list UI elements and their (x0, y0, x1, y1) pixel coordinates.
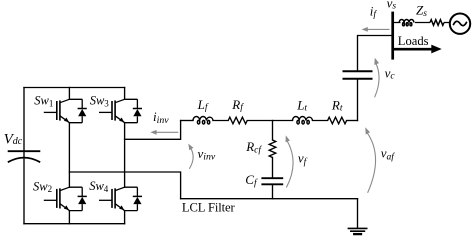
current arrow i_f (gray) (362, 27, 390, 32)
svg-text:LCL Filter: LCL Filter (182, 201, 236, 215)
voltage arc v_c (gray) (374, 58, 379, 98)
leg2 wire bottom (124, 211, 126, 224)
terminal B wire (69, 172, 180, 199)
filter wire segment 1 (181, 120, 193, 122)
grid bus vs (thick vertical) (391, 12, 394, 60)
wire Rf-Lf (213, 120, 228, 122)
Loads arrow (392, 48, 433, 51)
Vdc capacitor plate top (9, 150, 40, 152)
leg2 wire top (124, 88, 126, 100)
leg1 wire mid (68, 123, 70, 188)
svg-text:vs: vs (387, 0, 397, 12)
current arrow i_inv (gray) (150, 130, 178, 135)
wire Rt-corner (347, 120, 358, 122)
svg-text:Loads: Loads (398, 34, 429, 48)
wire Lt-Rt (313, 120, 328, 122)
ground bars (348, 228, 366, 231)
inductor Lt (293, 117, 313, 125)
right rail upper (358, 36, 393, 72)
right rail lower (357, 79, 359, 121)
resistor Zs zigzag (430, 20, 444, 26)
Cf bottom wire (272, 184, 274, 198)
inductor Zs coil (399, 19, 414, 25)
voltage arc v_f (gray) (286, 135, 294, 187)
top rail (24, 87, 125, 89)
inverter switch Sw3 (99, 99, 142, 122)
inverter switch Sw4 (99, 187, 142, 210)
ground stem (357, 199, 359, 229)
inverter switch Sw2 (44, 187, 87, 210)
leg2 wire mid (124, 123, 126, 188)
vc capacitor plates (344, 71, 372, 78)
bottom rail (24, 223, 125, 225)
bottom wire (181, 198, 358, 200)
Cf plates (262, 178, 282, 184)
voltage arc v_af (gray) (365, 127, 375, 193)
leg1 wire top (68, 88, 70, 100)
resistor Rcf vertical (269, 140, 276, 158)
wire bus to Zs (392, 22, 450, 24)
AC source sine (453, 21, 467, 25)
resistor Rf (228, 117, 247, 124)
resistor Rt (328, 117, 347, 124)
Rcf branch upper wire (272, 121, 274, 141)
Vdc capacitor plate curved (9, 158, 40, 162)
inverter switch Sw1 (44, 99, 87, 122)
AC source circle (450, 14, 470, 34)
voltage arc v_inv (gray) (188, 144, 193, 169)
wire Rf-node (247, 120, 292, 122)
Rcf branch lower wire (272, 158, 274, 179)
ground bottom bar (354, 233, 361, 235)
inductor Lf (193, 117, 213, 125)
left rail upper (23, 88, 25, 224)
terminal A wire (125, 121, 181, 140)
leg1 wire bottom (68, 211, 70, 224)
